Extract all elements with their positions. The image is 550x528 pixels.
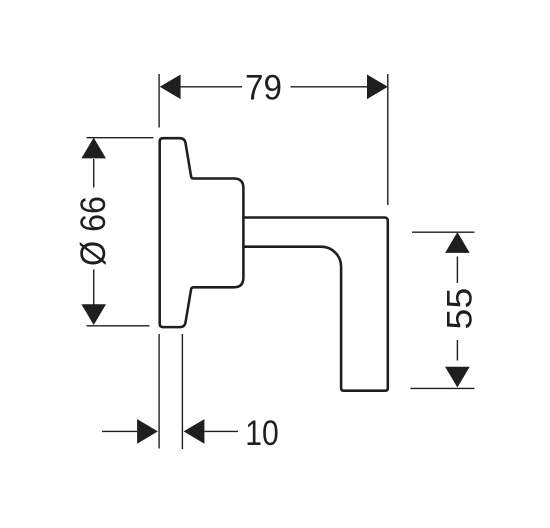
- dim Ø66: dimension line: [93, 159, 95, 305]
- svg-text:55: 55: [439, 288, 479, 330]
- dim Ø66: top arrowhead: [81, 138, 106, 159]
- dim 10: right dimension line: [204, 430, 238, 432]
- dim 55: bottom extension line: [411, 387, 475, 389]
- dim 10: right extension line: [181, 334, 183, 449]
- dim 79: right extension line: [387, 74, 389, 205]
- dim 55: top extension line: [412, 231, 475, 233]
- dim 10: left arrowhead: [137, 419, 158, 444]
- dim 55: top arrowhead: [445, 232, 470, 253]
- dim 79: dimension line: [180, 86, 367, 88]
- dim Ø66: bottom extension line: [87, 325, 150, 327]
- dim Ø66: top extension line: [87, 137, 154, 139]
- dim 10: left extension line: [158, 334, 160, 449]
- dim Ø66: bottom arrowhead: [81, 304, 106, 325]
- dim 79: right arrowhead: [367, 75, 388, 100]
- dim 55: bottom arrowhead: [445, 367, 470, 388]
- svg-text:10: 10: [245, 413, 279, 453]
- dim 10: left dimension line: [102, 430, 137, 432]
- svg-text:79: 79: [245, 67, 282, 107]
- dim 79: left arrowhead: [160, 75, 181, 100]
- dim 10: right arrowhead: [184, 419, 205, 444]
- handle lever (arm + vertical grip): [243, 218, 387, 391]
- dim 55: dimension line: [456, 257, 458, 361]
- dim 79: left extension line: [158, 74, 160, 128]
- svg-text:Ø 66: Ø 66: [73, 196, 113, 266]
- escutcheon rosette with sleeve: [160, 138, 244, 327]
